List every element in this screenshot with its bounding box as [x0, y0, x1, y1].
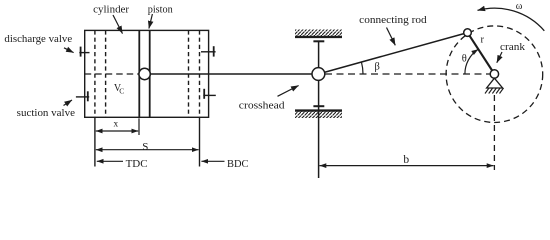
svg-text:TDC: TDC	[126, 158, 148, 170]
svg-text:suction valve: suction valve	[17, 107, 75, 119]
svg-text:ω: ω	[516, 1, 523, 12]
svg-text:crank: crank	[500, 41, 526, 53]
svg-text:BDC: BDC	[227, 158, 249, 170]
svg-text:piston: piston	[148, 3, 174, 15]
svg-text:x: x	[113, 120, 118, 130]
svg-text:θ: θ	[462, 53, 467, 64]
svg-text:crosshead: crosshead	[239, 99, 285, 111]
svg-text:β: β	[375, 61, 380, 72]
svg-text:C: C	[119, 86, 124, 95]
svg-text:discharge valve: discharge valve	[4, 33, 72, 45]
svg-text:connecting rod: connecting rod	[359, 14, 427, 26]
svg-text:b: b	[403, 154, 409, 166]
svg-text:S: S	[142, 141, 148, 153]
svg-text:r: r	[480, 35, 484, 46]
svg-text:cylinder: cylinder	[93, 3, 129, 15]
